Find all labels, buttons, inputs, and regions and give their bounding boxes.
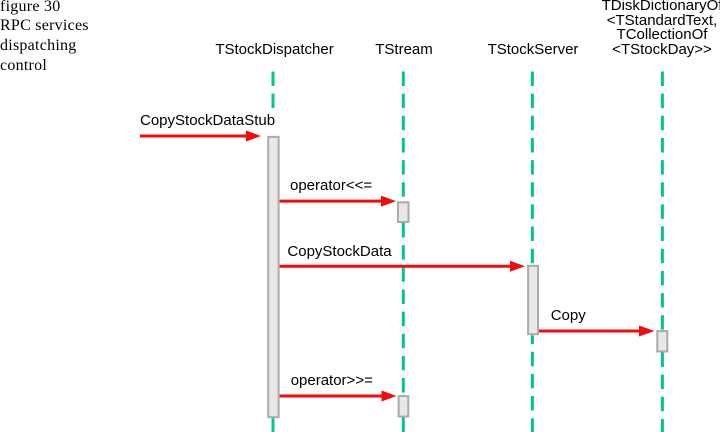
message label CopyStockData (287, 244, 391, 259)
message label operator<<= (290, 178, 372, 193)
arrow CopyStockData (280, 261, 525, 272)
activation bar TDiskDictionaryOf (657, 331, 667, 351)
caption figure 30 (0, 0, 89, 75)
header TDiskDictionaryOf (602, 0, 720, 58)
message label operator>>= (291, 373, 373, 388)
lifeline TStockServer upper segment (531, 72, 534, 265)
arrow CopyStockDataStub (140, 131, 261, 142)
lifeline TDiskDictionaryOf lower segment (661, 353, 664, 432)
header TStream (375, 43, 433, 58)
header TStockDispatcher (215, 43, 333, 58)
lifeline TStream lower segment (402, 418, 405, 432)
lifeline TStockDispatcher lower segment (272, 418, 275, 432)
lifeline TStream upper segment (402, 72, 405, 202)
activation bar TStream box2 (399, 396, 409, 416)
activation bar TStockServer (528, 266, 538, 334)
lifeline TStockDispatcher upper segment (272, 72, 275, 109)
header TStockServer (488, 43, 579, 58)
message label CopyStockDataStub (140, 113, 275, 128)
message label Copy (551, 308, 586, 323)
lifeline TDiskDictionaryOf upper segment (661, 72, 664, 331)
activation bar TStockDispatcher (268, 137, 278, 417)
lifeline TStream middle segment (402, 223, 405, 395)
arrow operator>>= (280, 391, 397, 402)
arrow operator<<= (280, 196, 396, 207)
activation bar TStream box1 (398, 202, 409, 222)
arrow Copy (539, 326, 655, 337)
lifeline TStockServer lower segment (531, 335, 534, 432)
